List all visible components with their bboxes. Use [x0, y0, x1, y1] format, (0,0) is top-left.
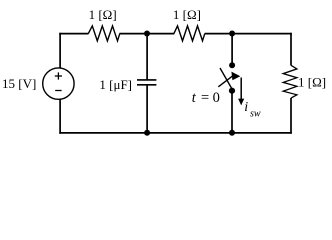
switch SW blade	[220, 68, 232, 89]
wire: capacitor branch lower	[146, 85, 148, 134]
current arrow i_sw	[240, 78, 242, 101]
wire: top rail right segment	[205, 33, 292, 35]
node A junction dot (top, capacitor branch)	[144, 31, 150, 37]
wire: right rail lower	[290, 98, 292, 134]
svg-text:i: i	[244, 100, 248, 115]
svg-text:sw: sw	[250, 108, 261, 119]
svg-text:1 [μF]: 1 [μF]	[99, 77, 132, 92]
svg-text:1 [Ω]: 1 [Ω]	[89, 7, 117, 22]
switch SW bottom contact	[229, 88, 235, 94]
svg-text:15 [V]: 15 [V]	[2, 76, 36, 91]
capacitor C1 top plate	[137, 79, 156, 81]
node C junction dot (bottom, capacitor branch)	[144, 130, 150, 136]
svg-text:1 [Ω]: 1 [Ω]	[173, 7, 201, 22]
resistor R2	[174, 26, 205, 41]
voltage source V1	[43, 68, 74, 99]
node D junction dot (bottom, switch branch)	[229, 130, 235, 136]
switch SW closing arrow	[218, 76, 233, 87]
wire: capacitor branch upper	[146, 33, 148, 80]
wire: left rail upper	[59, 33, 61, 69]
wire: switch branch upper	[231, 33, 233, 64]
wire: top rail left segment	[59, 33, 88, 35]
wire: switch branch lower	[231, 91, 233, 134]
capacitor C1 bottom plate	[137, 84, 156, 86]
resistor R1	[88, 26, 120, 41]
node B junction dot (top, switch branch)	[229, 31, 235, 37]
V1 plus sign	[57, 72, 59, 79]
wire: right rail upper	[290, 33, 292, 66]
wire: bottom rail	[59, 132, 291, 134]
V1 minus sign	[55, 90, 61, 92]
svg-text:1 [Ω]: 1 [Ω]	[298, 75, 326, 90]
switch SW top contact	[229, 62, 235, 68]
resistor R3	[283, 65, 297, 98]
wire: left rail lower	[59, 99, 61, 134]
wire: top rail middle segment	[120, 33, 175, 35]
